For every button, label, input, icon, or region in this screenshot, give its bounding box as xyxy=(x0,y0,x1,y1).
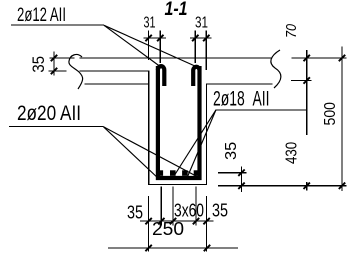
right 70/430 dim line xyxy=(306,50,308,191)
bottom rebar cross-sections (4 bars) xyxy=(158,170,200,176)
label 2o18 underline xyxy=(216,109,307,111)
bottom dim line 35/3x60/35 xyxy=(140,220,214,222)
right extension lines xyxy=(218,58,347,186)
svg-text:35: 35 xyxy=(223,142,240,160)
top 31 dim lines xyxy=(144,37,212,39)
top extension lines xyxy=(149,31,207,71)
svg-text:430: 430 xyxy=(283,142,300,164)
svg-text:500: 500 xyxy=(322,102,339,126)
leader to left hook xyxy=(104,25,161,67)
svg-text:35: 35 xyxy=(127,202,143,223)
leader to bar B1 xyxy=(104,127,160,180)
leader to bar B3 xyxy=(188,110,216,176)
leader to right hook xyxy=(104,25,196,66)
bar B4 xyxy=(194,170,200,176)
svg-text:35: 35 xyxy=(30,56,48,73)
svg-text:35: 35 xyxy=(212,200,228,221)
stirrup U xyxy=(158,66,200,178)
slab bottom right xyxy=(207,83,273,85)
right 500 dim line xyxy=(341,47,343,192)
label underlines xyxy=(9,25,307,127)
svg-text:2ø18 AII: 2ø18 AII xyxy=(213,88,270,111)
bar B2 xyxy=(170,170,176,176)
dimension ticks (45 deg slashes) xyxy=(51,35,345,251)
leader lines xyxy=(104,25,217,179)
right break wave xyxy=(271,50,281,88)
leader to bar B2 xyxy=(174,110,216,176)
left break wave xyxy=(69,54,83,89)
left 35 dim line xyxy=(53,52,55,76)
svg-text:250: 250 xyxy=(152,218,184,239)
leader to bar B4 xyxy=(104,127,197,177)
svg-text:1-1: 1-1 xyxy=(165,0,188,20)
svg-text:2ø20 AII: 2ø20 AII xyxy=(17,102,81,125)
svg-text:31: 31 xyxy=(195,15,208,32)
svg-text:70: 70 xyxy=(283,23,300,38)
slab layer line left (Y2) xyxy=(49,70,149,72)
svg-text:2ø12 AII: 2ø12 AII xyxy=(17,5,66,26)
right 35 cover dim xyxy=(218,167,247,193)
label 2o12 underline xyxy=(11,24,104,26)
svg-text:31: 31 xyxy=(144,15,156,32)
bar B3 xyxy=(182,170,188,176)
bar B1 xyxy=(158,170,164,176)
bottom extension lines xyxy=(149,187,207,252)
dimension structure xyxy=(54,31,347,252)
beam web outline xyxy=(149,71,207,185)
slab top line xyxy=(50,57,272,59)
slab bottom left (Y3) xyxy=(85,83,149,85)
stirrup hook right xyxy=(193,67,199,86)
stirrup hook left xyxy=(158,66,164,86)
label 2o20 underline xyxy=(9,126,104,128)
bottom 250 dim line xyxy=(108,247,238,249)
